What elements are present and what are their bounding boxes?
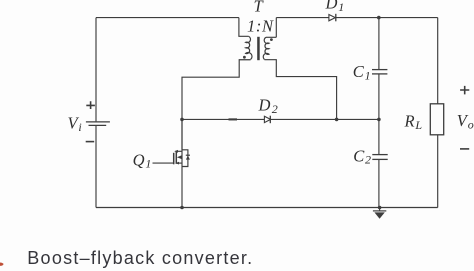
svg-text:Vi: Vi [68, 113, 82, 133]
svg-text:Q1: Q1 [133, 150, 152, 170]
svg-text:C1: C1 [353, 62, 371, 82]
svg-text:Boost–flyback converter.: Boost–flyback converter. [27, 248, 253, 268]
svg-text:T: T [254, 0, 265, 16]
svg-text:D1: D1 [325, 0, 345, 14]
svg-text:D2: D2 [258, 96, 278, 116]
svg-text:RL: RL [404, 112, 423, 132]
svg-text:Vo: Vo [457, 111, 474, 131]
svg-text:C2: C2 [353, 146, 371, 166]
svg-text:1:N: 1:N [247, 17, 274, 36]
